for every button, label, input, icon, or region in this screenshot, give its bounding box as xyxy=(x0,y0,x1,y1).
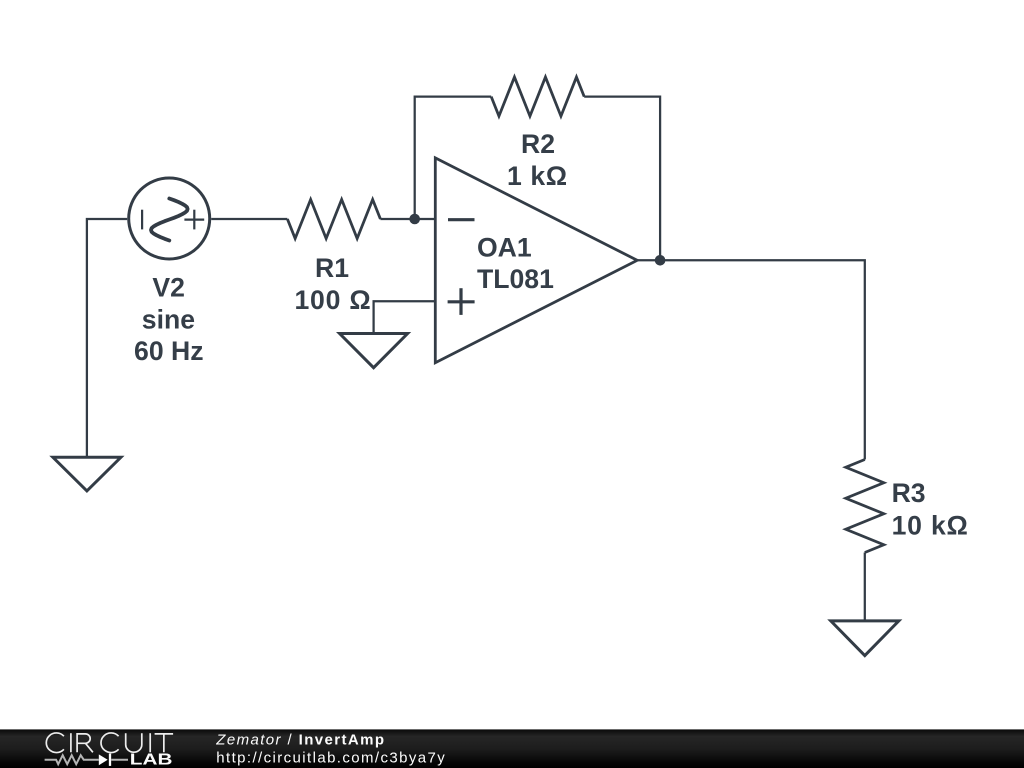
resistor R2 xyxy=(491,77,584,116)
svg-text:R3: R3 xyxy=(892,478,926,508)
footer bar xyxy=(0,729,1024,768)
svg-text:10 kΩ: 10 kΩ xyxy=(892,510,969,540)
ground (R3) xyxy=(831,621,899,656)
logo CIRCUIT text xyxy=(46,733,173,753)
svg-text:1 kΩ: 1 kΩ xyxy=(507,161,568,191)
svg-text:LAB: LAB xyxy=(130,750,173,768)
node A (inverting input junction) xyxy=(409,214,420,225)
svg-text:R1: R1 xyxy=(315,253,349,283)
ground (non-inverting input) xyxy=(340,334,408,368)
wire V2 right terminal to R1 xyxy=(211,218,287,220)
wire op-amp non-inverting input with stub to ground xyxy=(374,301,436,333)
svg-text:60 Hz: 60 Hz xyxy=(134,336,203,366)
voltage source V2 xyxy=(129,178,210,259)
svg-text:100 Ω: 100 Ω xyxy=(294,285,371,315)
resistor R3 xyxy=(846,460,884,553)
wire R2 to right vertical down to output node xyxy=(584,97,660,261)
wire R3 bottom to ground xyxy=(864,553,866,621)
svg-text:Zemator / InvertAmp: Zemator / InvertAmp xyxy=(215,732,385,749)
wire V2 left terminal to ground xyxy=(87,219,127,457)
node B (output junction) xyxy=(655,255,666,266)
svg-text:OA1: OA1 xyxy=(477,233,532,263)
svg-text:V2: V2 xyxy=(152,273,185,303)
wire op-amp output to R3 top xyxy=(637,260,865,459)
ground (V2) xyxy=(53,457,121,491)
resistor R1 xyxy=(287,200,380,239)
svg-text:sine: sine xyxy=(142,304,195,334)
svg-text:http://circuitlab.com/c3bya7y: http://circuitlab.com/c3bya7y xyxy=(216,749,446,766)
svg-text:R2: R2 xyxy=(521,129,555,159)
op-amp OA1 xyxy=(435,158,637,363)
logo resistor xyxy=(45,755,99,764)
svg-text:TL081: TL081 xyxy=(477,264,554,294)
logo diode xyxy=(99,754,128,766)
wire feedback left vertical and top horizontal to R2 xyxy=(415,97,492,219)
wire R1 to op-amp inverting input xyxy=(380,218,435,220)
